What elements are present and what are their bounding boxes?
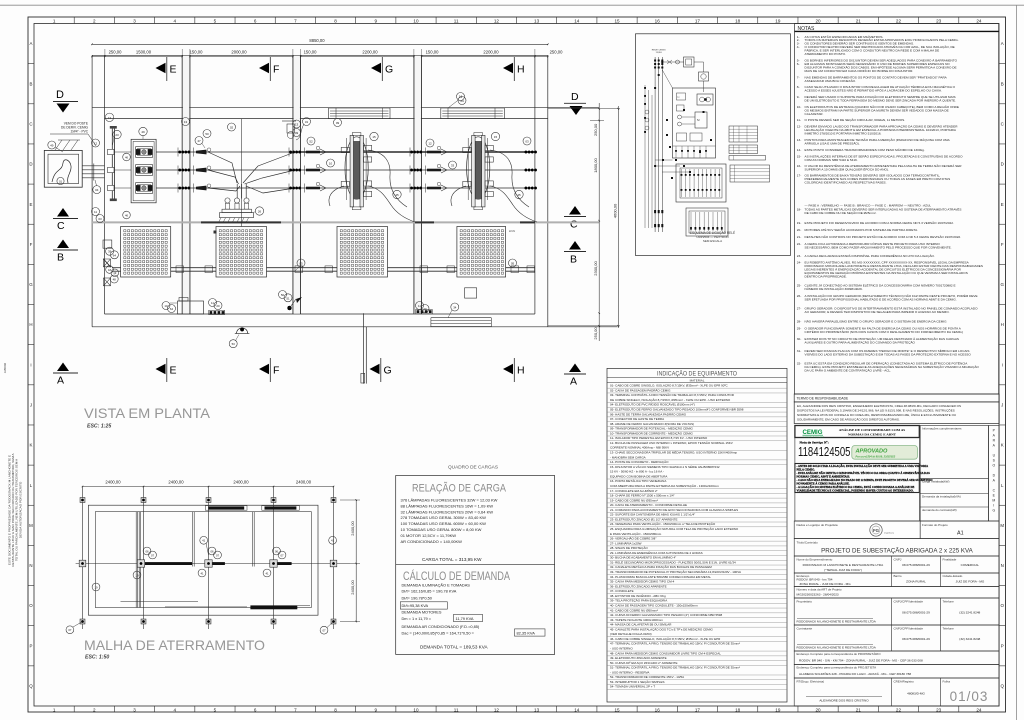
- svg-text:A: A: [1001, 41, 1004, 46]
- svg-text:02: 02: [230, 126, 234, 130]
- svg-text:53: 53: [232, 342, 236, 346]
- svg-text:15 KV - 50/60 HZ - In 800 A -: 15 KV - 50/60 HZ - In 800 A - Icc 16 KA …: [610, 470, 664, 474]
- tag 48: [110, 275, 118, 283]
- svg-text:I: I: [1002, 362, 1003, 367]
- svg-text:250,00: 250,00: [109, 50, 122, 55]
- svg-text:03: 03: [98, 217, 102, 221]
- svg-text:SE NECESSÁRIO, BEM COMO FAZER: SE NECESSÁRIO, BEM COMO FAZER ARQUIVAMEN…: [805, 246, 952, 250]
- svg-text:250,00: 250,00: [550, 50, 563, 55]
- svg-text:09: 09: [336, 121, 340, 125]
- tag 11 pair left wall: [92, 208, 100, 216]
- T1 cable loops: [368, 150, 407, 207]
- svg-text:07: 07: [151, 553, 155, 557]
- svg-text:28- SINAIS DE PROTEÇÃO: 28- SINAIS DE PROTEÇÃO: [610, 545, 648, 550]
- svg-text:B: B: [570, 254, 577, 266]
- svg-text:DENTRO DA PROPRIEDADE.: DENTRO DA PROPRIEDADE.: [805, 275, 847, 279]
- svg-text:Telefone: Telefone: [943, 626, 955, 630]
- svg-text:21-: 21-: [797, 235, 801, 239]
- notas panel box: [795, 24, 999, 395]
- svg-text:19: 19: [135, 573, 139, 577]
- svg-text:22 kV: 22 kV: [509, 230, 516, 233]
- svg-text:21: 21: [856, 18, 862, 23]
- svg-text:14-: 14-: [797, 148, 801, 152]
- svg-text:H: H: [517, 364, 525, 376]
- floor grounding strip 1: [209, 310, 225, 314]
- wye cable split to pedestal: [208, 152, 237, 183]
- svg-text:11: 11: [454, 707, 459, 712]
- svg-text:06: 06: [145, 549, 149, 553]
- svg-text:F: F: [273, 63, 279, 75]
- upper room tag 24: [458, 97, 466, 105]
- malha bottom black bar: [165, 606, 247, 608]
- svg-text:O: O: [992, 464, 995, 468]
- svg-text:COMERCIAL: COMERCIAL: [961, 563, 980, 567]
- svg-text:34- PLATAFORMA BASCULANTE 580: 34- PLATAFORMA BASCULANTE 580x580 CONFEC…: [610, 575, 711, 579]
- svg-text:15- DISJUNTOR A VÁCUO SIEMENS: 15- DISJUNTOR A VÁCUO SIEMENS TIPO 3AH51…: [610, 464, 720, 469]
- switchboard panel P4: [457, 227, 506, 278]
- svg-text:15: 15: [372, 135, 376, 139]
- svg-text:2200,00: 2200,00: [362, 50, 378, 55]
- switchboard panel P1: [121, 227, 171, 278]
- svg-text:COM ABERTURA PARA A PARTE EXTE: COM ABERTURA PARA A PARTE EXTERNA DA SUB…: [610, 483, 719, 488]
- svg-text:1800,00: 1800,00: [593, 158, 598, 173]
- svg-text:49- ELETRODUTO ZINCADO APAREN: 49- ELETRODUTO ZINCADO APARENTE: [610, 656, 667, 660]
- tag 49 fuse bank: [139, 127, 147, 135]
- floor grounding strip 2: [416, 310, 433, 314]
- svg-text:ATERRAMENTO DO POSTO.: ATERRAMENTO DO POSTO.: [805, 52, 847, 56]
- svg-text:250,00: 250,00: [593, 327, 598, 340]
- malha grid conductor horizontal: [76, 563, 350, 565]
- svg-text:DEMANDA TOTAL = 189,53 KVA: DEMANDA TOTAL = 189,53 KVA: [420, 645, 488, 650]
- building right wall: [534, 55, 536, 314]
- tag 13 column2 top: [293, 120, 301, 128]
- svg-text:CNPJ/CPF/Identidade: CNPJ/CPF/Identidade: [894, 626, 924, 630]
- svg-text:31- RELÉ SECUNDÁRIO MICROPROC: 31- RELÉ SECUNDÁRIO MICROPROCESSADO - FU…: [610, 559, 736, 564]
- bottom duct lines: [431, 317, 491, 319]
- svg-text:H: H: [29, 322, 32, 327]
- pedestal standoff insulators 11: [225, 198, 230, 203]
- svg-text:M: M: [1000, 523, 1004, 528]
- svg-text:28-: 28-: [797, 320, 801, 324]
- svg-text:2400,00: 2400,00: [233, 480, 249, 485]
- svg-text:RODOV. BR 040 - S/N - KM: RODOV. BR 040 - S/N - KM 794 - ZONA RURA…: [799, 659, 923, 663]
- svg-text:26-: 26-: [797, 294, 801, 298]
- vertical conduit drop bay2: [241, 119, 243, 227]
- svg-text:Formato do Projeto: Formato do Projeto: [922, 523, 948, 527]
- svg-text:19: 19: [775, 707, 781, 712]
- tag 09 left of T1: [334, 119, 342, 127]
- svg-text:50: 50: [281, 293, 285, 297]
- wall bushings column 2: [289, 151, 292, 154]
- svg-text:D: D: [29, 162, 32, 167]
- vertical dimension 4600 overall: [617, 106, 619, 328]
- svg-text:10 TOMADAS USO GERAL 800W = 8,: 10 TOMADAS USO GERAL 800W = 8,00 KW: [401, 527, 482, 532]
- svg-text:250,00: 250,00: [593, 123, 598, 136]
- svg-text:A1: A1: [957, 531, 964, 537]
- section marker B right: [569, 241, 581, 250]
- svg-text:A: A: [570, 376, 577, 388]
- svg-text:J: J: [30, 402, 32, 407]
- svg-text:41: 41: [331, 539, 335, 543]
- svg-text:G: G: [992, 509, 995, 513]
- svg-text:34: 34: [453, 306, 457, 310]
- section marker G bottom: [370, 364, 380, 374]
- svg-text:17-: 17-: [797, 173, 801, 177]
- svg-text:51: 51: [286, 296, 290, 300]
- tag 34 near duct: [451, 303, 459, 311]
- indicacao de equipamento table: [607, 368, 787, 702]
- svg-text:E: E: [170, 63, 177, 75]
- svg-text:17: 17: [695, 18, 701, 23]
- svg-text:H: H: [517, 63, 525, 75]
- svg-text:DISPOSTOS NA LEI FEDERAL 5.194: DISPOSTOS NA LEI FEDERAL 5.194/66 DE 24/…: [797, 408, 955, 413]
- svg-text:15: 15: [614, 707, 620, 712]
- svg-text:30- BUCHA DE ACABAMENTO EM AL: 30- BUCHA DE ACABAMENTO EM ALUMÍNIO 4": [610, 556, 676, 560]
- section marker H bottom: [503, 364, 513, 374]
- svg-text:20: 20: [816, 707, 822, 712]
- svg-text:MOTORES ATÉ 5CV SERÃO ACIONADO: MOTORES ATÉ 5CV SERÃO ACIONADOS POR SIST…: [805, 227, 919, 232]
- formato do projeto: [920, 521, 999, 539]
- termo paragraph box: [794, 402, 999, 424]
- malha tag circles: [66, 626, 74, 634]
- svg-text:Título/Conteúdo: Título/Conteúdo: [797, 541, 819, 545]
- svg-text:01 MOTOR 12,5CV = 11,79KW: 01 MOTOR 12,5CV = 11,79KW: [401, 533, 457, 538]
- svg-text:N: N: [29, 563, 32, 568]
- termo de responsabilidade header: [794, 394, 999, 402]
- svg-text:12- BUCHA DE PASSAGEM USO INT: 12- BUCHA DE PASSAGEM USO INTERNO x INTE…: [610, 440, 733, 445]
- svg-text:M: M: [29, 523, 33, 528]
- svg-text:10: 10: [413, 18, 419, 23]
- svg-text:2x#4" - PVC: 2x#4" - PVC: [71, 130, 89, 134]
- rt crea folha row: [794, 678, 999, 706]
- svg-text:Telefone: Telefone: [943, 599, 955, 603]
- busway duct between panels: [112, 267, 121, 269]
- svg-text:23- ELETRODUTO ZINCADO Ø1 1/2: 23- ELETRODUTO ZINCADO Ø1 1/2" APARENTE: [610, 517, 677, 521]
- svg-text:12: 12: [494, 707, 500, 712]
- svg-text:22: 22: [896, 707, 902, 712]
- svg-text:1: 1: [53, 18, 56, 23]
- svg-text:04: 04: [95, 188, 99, 192]
- aprovado stamp green: [852, 446, 918, 460]
- svg-text:Informações complementares: Informações complementares: [922, 427, 962, 431]
- svg-text:36- ELETRODUTO ZINCADO APAREN: 36- ELETRODUTO ZINCADO APARENTE: [610, 584, 667, 588]
- svg-text:07: 07: [68, 628, 72, 632]
- svg-text:K: K: [1001, 443, 1004, 448]
- svg-text:15: 15: [614, 18, 620, 23]
- tag 12: [92, 139, 100, 147]
- svg-text:Por usrv1504 bt 99.99, 23/5/20: Por usrv1504 bt 99.99, 23/5/2022: [856, 454, 896, 458]
- svg-text:- USO INTERNO - RESERVA: - USO INTERNO - RESERVA: [610, 670, 649, 674]
- svg-text:29-: 29-: [797, 327, 801, 331]
- svg-text:AUXILIARES E OUTRO PARA ALIMEN: AUXILIARES E OUTRO PARA ALIMENTAÇÃO DO C…: [805, 340, 916, 345]
- svg-text:27- LUMINÁRIA 1x20W: 27- LUMINÁRIA 1x20W: [610, 541, 642, 545]
- svg-text:NÃO HAVERÁ PARALELISMO ENTRE O: NÃO HAVERÁ PARALELISMO ENTRE O GRUPO GER…: [805, 319, 948, 324]
- svg-text:- USO INTERNO: - USO INTERNO: [610, 647, 633, 651]
- svg-text:ANÁLISE DE CONFORMIDADE COM AS: ANÁLISE DE CONFORMIDADE COM AS: [839, 427, 906, 432]
- wall louver vent 1: [329, 108, 391, 119]
- svg-text:2000,00: 2000,00: [231, 50, 247, 55]
- svg-text:engenharia: engenharia: [884, 533, 895, 535]
- section marker A left: [57, 363, 69, 372]
- svg-text:CARGA TOTAL = 313,95 KW: CARGA TOTAL = 313,95 KW: [422, 557, 482, 562]
- svg-text:10: 10: [413, 707, 419, 712]
- svg-text:TERMO DE RESPONSABILIDADE: TERMO DE RESPONSABILIDADE: [797, 396, 849, 400]
- svg-text:MAIS DE UM CONDUTOR EM CADA OR: MAIS DE UM CONDUTOR EM CADA ORIFÍCIO DO …: [805, 69, 914, 73]
- svg-text:05- ELETRODUTO DE FERRO GALVA: 05- ELETRODUTO DE FERRO GALVANIZADO TIPO…: [610, 408, 744, 412]
- svg-text:13: 13: [534, 18, 540, 23]
- svg-text:MG20230023263 - 28/04/2023: MG20230023263 - 28/04/2023: [797, 593, 839, 597]
- schematic bottom box: [686, 208, 728, 236]
- svg-text:51- TERMINAL CONTRÁTIL A FRIO: 51- TERMINAL CONTRÁTIL A FRIO, TENSÃO DE…: [610, 665, 740, 670]
- svg-text:45: 45: [395, 193, 399, 197]
- svg-text:47: 47: [197, 139, 201, 143]
- svg-text:24: 24: [976, 707, 982, 712]
- tag 47 50: [195, 137, 203, 145]
- tag 52 c2: [307, 137, 315, 145]
- svg-text:02- CAIXA DE PASSAGEM PADRÃO: 02- CAIXA DE PASSAGEM PADRÃO CEMIG: [610, 387, 671, 392]
- svg-text:CORRENTE NOMINAL 400Amp - NBI: CORRENTE NOMINAL 400Amp - NBI 95KV: [610, 446, 669, 450]
- svg-text:54- TOMADA UNIVERSAL 2P + T: 54- TOMADA UNIVERSAL 2P + T: [610, 685, 655, 689]
- ART row: [794, 587, 999, 599]
- schematic lower terminal strip: [676, 164, 726, 202]
- svg-text:20: 20: [423, 307, 427, 311]
- fuse switch bank 13 - chave seccionadora: [131, 139, 156, 203]
- svg-text:18: 18: [735, 18, 741, 23]
- power transformer T1 (bay 3): [345, 137, 368, 199]
- svg-text:A CARGA DECLARADA ESTARÁ DISPO: A CARGA DECLARADA ESTARÁ DISPONÍVEL PARA…: [805, 253, 935, 258]
- para uso da cemig strip: [989, 426, 1000, 522]
- entry conduits to wall: [82, 165, 104, 167]
- svg-text:OS MESMOS ENTRAM NA PARTE SUPE: OS MESMOS ENTRAM NA PARTE SUPERIOR DA MU…: [805, 108, 949, 112]
- svg-text:21: 21: [856, 707, 862, 712]
- schematic top chain fuse PT: [662, 61, 684, 63]
- vertical dimension chain right: [598, 103, 600, 341]
- ground rods grid: [80, 498, 85, 503]
- svg-text:F: F: [30, 242, 33, 247]
- svg-text:42- CURVA 90 FERRO GALVANIZAD: 42- CURVA 90 FERRO GALVANIZADO TIPO PESA…: [610, 613, 722, 617]
- svg-text:QUADRO DE CARGAS: QUADRO DE CARGAS: [448, 465, 498, 470]
- svg-text:4: 4: [173, 18, 176, 23]
- svg-text:41: 41: [200, 571, 204, 575]
- svg-text:ZONA RURAL - JUIZ DE FORA: ZONA RURAL - JUIZ DE FORA - MG: [800, 582, 852, 586]
- svg-text:(VER DETALHE FOLHA 03/03): (VER DETALHE FOLHA 03/03): [610, 632, 652, 636]
- svg-text:3: 3: [133, 707, 136, 712]
- svg-text:C: C: [29, 121, 32, 126]
- svg-text:14: 14: [574, 18, 580, 23]
- schematic phase tap dots: [654, 60, 656, 62]
- schematic legend list: [730, 165, 770, 182]
- svg-text:DETALHES NÃO CONTIDOS NO PROJE: DETALHES NÃO CONTIDOS NO PROJETO ESTÃO D…: [805, 234, 962, 239]
- svg-text:47- TERMINAL CONTRÁTIL A FRIO: 47- TERMINAL CONTRÁTIL A FRIO, TENSÃO DE…: [610, 641, 740, 646]
- svg-text:07- CONECTOR DE HASTE DE TERR: 07- CONECTOR DE HASTE DE TERRA: [610, 417, 664, 421]
- svg-text:22- SUPORTE EM CANTONEIRA DE: 22- SUPORTE EM CANTONEIRA DE ABAS IGUAIS…: [610, 513, 695, 517]
- svg-text:06- HASTE DE TERRA GALVANIZAD: 06- HASTE DE TERRA GALVANIZADA PADRÃO CE…: [610, 411, 687, 416]
- svg-text:53- INTERRUPTOR 1 SEÇÃO SIMPL: 53- INTERRUPTOR 1 SEÇÃO SIMPLES: [610, 679, 664, 684]
- svg-text:COM AS NORMAS NBR 5410 E 5419.: COM AS NORMAS NBR 5410 E 5419.: [805, 158, 858, 162]
- svg-text:J: J: [1001, 402, 1003, 407]
- tag 23: [113, 130, 121, 138]
- svg-text:64: 64: [170, 307, 174, 311]
- canopy wall G: [363, 313, 365, 383]
- svg-text:F: F: [1001, 242, 1004, 247]
- section marker F top: [259, 63, 269, 73]
- svg-text:4: 4: [173, 707, 176, 712]
- svg-text:100 TOMADAS USO GERAL 600W = 6: 100 TOMADAS USO GERAL 600W = 60,00 KW: [401, 521, 487, 526]
- svg-text:376 LÂMPADAS FLUORESCENTES 32W: 376 LÂMPADAS FLUORESCENTES 32W = 12,03 K…: [401, 498, 498, 503]
- svg-text:2400,00: 2400,00: [105, 480, 121, 485]
- tag 18 19: [106, 266, 114, 274]
- malha grid conductors vertical: [82, 487, 84, 630]
- ruler bands numbers and letters: [73, 17, 75, 24]
- svg-text:RT(Engo. Eletricista): RT(Engo. Eletricista): [797, 679, 825, 683]
- svg-text:Número e data da ART de: Número e data da ART de Projeto: [797, 588, 842, 592]
- svg-text:24-: 24-: [797, 261, 801, 265]
- svg-text:CNPJ: CNPJ: [894, 557, 902, 561]
- entry pull box: [44, 150, 82, 187]
- svg-text:30-: 30-: [797, 337, 801, 341]
- svg-text:88 LÂMPADAS FLUORESCENTES 16W: 88 LÂMPADAS FLUORESCENTES 16W = 1,09 KW: [401, 503, 494, 508]
- paper edge lines: [0, 4, 1024, 6]
- svg-text:12: 12: [94, 142, 98, 146]
- svg-text:9: 9: [374, 707, 377, 712]
- building top wall: [92, 54, 548, 56]
- svg-text:ALAMEDA SOLIMÕES 228 - PRA: ALAMEDA SOLIMÕES 228 - PRAIRA DO LAGO - …: [799, 671, 911, 676]
- svg-text:06: 06: [275, 549, 279, 553]
- relacao de carga box: [396, 476, 555, 655]
- svg-text:13,8kV: 13,8kV: [656, 52, 663, 54]
- svg-text:8: 8: [334, 707, 337, 712]
- schematic box border: [636, 34, 791, 256]
- svg-text:20: 20: [216, 304, 220, 308]
- section marker C right: [569, 206, 581, 215]
- svg-text:NÚMERO DE INSTALAÇÃO 300981402: NÚMERO DE INSTALAÇÃO 3009814029.: [805, 286, 863, 291]
- svg-text:08.075.088/0001-29: 08.075.088/0001-29: [902, 563, 930, 567]
- svg-text:31: 31: [305, 120, 309, 124]
- svg-text:6: 6: [254, 18, 257, 23]
- svg-text:08.075.088/0001-29: 08.075.088/0001-29: [902, 611, 930, 615]
- svg-text:48: 48: [113, 278, 117, 282]
- tag 01 entry box: [57, 177, 64, 184]
- interior wall band: [92, 107, 548, 109]
- svg-text:CNPJ/CPF/Identidade: CNPJ/CPF/Identidade: [894, 599, 924, 603]
- svg-text:03: 03: [525, 140, 529, 144]
- nome empreendimento row: [794, 556, 999, 573]
- svg-text:1: 1: [53, 707, 56, 712]
- malha top duct bars: [205, 506, 247, 511]
- meter pedestal box: [178, 301, 204, 314]
- svg-text:48- CAIXA PARA MEDIDOR CEMIG: 48- CAIXA PARA MEDIDOR CEMIG CONSUMIDOR …: [610, 651, 721, 655]
- svg-text:46: 46: [125, 213, 129, 217]
- svg-text:29- LUMINÁRIA DE EMERGÊNCIA C: 29- LUMINÁRIA DE EMERGÊNCIA COM AUTONOMI…: [610, 550, 703, 555]
- svg-text:41: 41: [202, 539, 206, 543]
- svg-text:23-: 23-: [797, 254, 801, 258]
- section marker E top: [156, 63, 166, 73]
- wall box 35: [103, 240, 112, 248]
- svg-text:DE COBRE SINGELO, ISOLAÇÃO 8,7: DE COBRE SINGELO, ISOLAÇÃO 8,7/15KV, Ø35…: [610, 397, 731, 402]
- dados e logotipo row: [794, 521, 920, 539]
- svg-text:8: 8: [334, 18, 337, 23]
- schematic web lines: [644, 85, 646, 228]
- endereco projetista row: [794, 665, 999, 679]
- svg-text:CRITÉRIO DO PROPRIETÁRIO (NOS: CRITÉRIO DO PROPRIETÁRIO (NOS DOIS CASOS…: [805, 329, 963, 334]
- svg-text:25-: 25-: [797, 283, 801, 287]
- svg-text:27-: 27-: [797, 307, 801, 311]
- svg-text:E: E: [1001, 202, 1004, 207]
- window square: [465, 288, 477, 298]
- svg-text:25- ESQUADRIA PARA ILUMINAÇÃO: 25- ESQUADRIA PARA ILUMINAÇÃO NATURAL CO…: [610, 526, 739, 531]
- svg-text:21- COMANDO PARA ACIONAMENTO: 21- COMANDO PARA ACIONAMENTO DE EIXO SEC…: [610, 508, 738, 512]
- svg-text:07: 07: [322, 629, 326, 633]
- svg-text:C: C: [570, 219, 578, 231]
- svg-text:03- TERMINAL CONTRÁTIL A FRIO: 03- TERMINAL CONTRÁTIL A FRIO TENSÃO DE …: [610, 392, 735, 397]
- svg-text:20: 20: [816, 18, 822, 23]
- wall bushings column 3: [410, 151, 413, 154]
- svg-text:8850,00: 8850,00: [309, 38, 325, 43]
- svg-text:G: G: [385, 63, 393, 75]
- section marker H top: [503, 63, 513, 73]
- svg-text:07: 07: [280, 553, 284, 557]
- section marker F bottom: [259, 364, 269, 374]
- valve X symbol 2: [104, 278, 111, 286]
- svg-text:Nome do Empreendimento: Nome do Empreendimento: [797, 557, 833, 561]
- svg-text:DEMANDA AR CONDICIONADO (F.D.: DEMANDA AR CONDICIONADO (F.D.=0,85): [402, 624, 480, 629]
- tags 50 51 flag: [279, 291, 287, 299]
- svg-text:Q: Q: [1000, 684, 1004, 689]
- svg-text:16: 16: [655, 707, 661, 712]
- malha right dimension: [355, 500, 357, 622]
- svg-text:10- TRANSFORMADOR DE CORRENTE: 10- TRANSFORMADOR DE CORRENTE - MEDIÇÃO …: [610, 430, 693, 435]
- svg-text:64: 64: [113, 253, 117, 257]
- svg-text:26: 26: [258, 210, 262, 214]
- svg-text:11,79 KVA: 11,79 KVA: [456, 616, 474, 621]
- svg-text:Demanda da instalação(kVA): Demanda da instalação(kVA): [922, 495, 961, 499]
- svg-text:Endereço Completo para corr: Endereço Completo para correspondência d…: [797, 652, 882, 656]
- svg-text:3: 3: [133, 18, 136, 23]
- svg-text:13: 13: [295, 123, 299, 127]
- valve X symbol 1: [104, 259, 111, 267]
- svg-text:B: B: [30, 81, 33, 86]
- tags 11 strip1: [209, 299, 217, 307]
- svg-text:13-: 13-: [797, 138, 801, 142]
- svg-text:40- CAIXA DE PASSAGEM TIPO CO: 40- CAIXA DE PASSAGEM TIPO CONDULETE - 1…: [610, 603, 698, 607]
- svg-text:26- VERGALHÃO DE COBRE 3/8": 26- VERGALHÃO DE COBRE 3/8": [610, 536, 656, 541]
- svg-text:ASSEGURAR UMA BOA CONEXÃO.: ASSEGURAR UMA BOA CONEXÃO.: [805, 78, 857, 83]
- svg-text:11: 11: [94, 210, 97, 214]
- svg-text:4-: 4-: [797, 45, 800, 49]
- svg-text:2200,00: 2200,00: [483, 50, 499, 55]
- wall bushings column 1: [179, 151, 182, 154]
- svg-text:82,35 KVA: 82,35 KVA: [517, 631, 536, 636]
- svg-text:EU, ALEXANDRE DOS REIS CRISTIN: EU, ALEXANDRE DOS REIS CRISTINO, ENGENHE…: [797, 404, 961, 408]
- svg-text:DEMANDA ILUMINAÇÃO E TOMADAS: DEMANDA ILUMINAÇÃO E TOMADAS: [402, 583, 471, 588]
- building bottom wall: [92, 326, 618, 328]
- svg-text:38- EXTINTOR DE INCÊNDIO - AB: 38- EXTINTOR DE INCÊNDIO - ABC 6Kg: [610, 593, 666, 598]
- svg-text:D: D: [1001, 162, 1004, 167]
- svg-text:RODOSNACK M LANCHONETE E R: RODOSNACK M LANCHONETE E RESTAURANTE LTD…: [797, 646, 877, 650]
- svg-text:(32) 3241 8248: (32) 3241 8248: [959, 637, 980, 641]
- svg-text:16-: 16-: [797, 164, 801, 168]
- svg-text:19- CABO DE COBRE NU Ø35mm²: 19- CABO DE COBRE NU Ø35mm²: [610, 498, 658, 502]
- svg-text:2300,00: 2300,00: [593, 261, 598, 276]
- svg-text:O: O: [1000, 603, 1004, 608]
- wall bushings right wall: [525, 151, 528, 154]
- svg-text:PROJETO DE SUBESTAÇÃO ABRIG: PROJETO DE SUBESTAÇÃO ABRIGADA 2 x 225 K…: [821, 548, 974, 555]
- contratante row: [794, 625, 999, 651]
- svg-text:32-: 32-: [797, 361, 801, 365]
- svg-text:AR CONDICIONADO = 140,00KW: AR CONDICIONADO = 140,00KW: [401, 539, 463, 544]
- svg-text:11: 11: [454, 18, 459, 23]
- svg-text:50- CURVA 90º EM AÇO ZINCADO: 50- CURVA 90º EM AÇO ZINCADO 2" APARENTE: [610, 661, 678, 665]
